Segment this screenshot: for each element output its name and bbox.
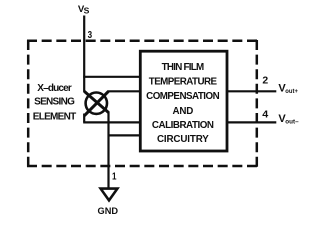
svg-text:1: 1 bbox=[112, 172, 117, 183]
svg-text:CALIBRATION: CALIBRATION bbox=[152, 120, 214, 131]
svg-text:4: 4 bbox=[262, 110, 268, 121]
dashed package outline top edge bbox=[27, 39, 257, 42]
svg-text:SENSING: SENSING bbox=[34, 97, 75, 108]
wire: ground vertical lead (pin 1) bbox=[107, 112, 109, 189]
dashed package outline bottom edge bbox=[27, 165, 257, 168]
wire: Vout- output lead (pin 4) bbox=[226, 121, 276, 123]
wire: ground branch to circuit box bbox=[109, 134, 143, 136]
svg-text:TEMPERATURE: TEMPERATURE bbox=[149, 77, 218, 88]
svg-text:3: 3 bbox=[88, 30, 93, 41]
wire: Vout+ output lead (pin 2) bbox=[226, 90, 276, 92]
circuit box text bbox=[146, 62, 220, 145]
svg-text:X–ducer: X–ducer bbox=[37, 83, 72, 94]
svg-text:AND: AND bbox=[172, 106, 193, 117]
svg-text:THIN FILM: THIN FILM bbox=[162, 62, 205, 73]
svg-text:CIRCUITRY: CIRCUITRY bbox=[157, 134, 209, 145]
dashed package outline right edge bbox=[256, 40, 259, 167]
svg-text:ELEMENT: ELEMENT bbox=[33, 111, 77, 122]
circuit box bbox=[140, 51, 227, 151]
dashed package outline left edge bbox=[27, 40, 30, 167]
X-ducer bridge sensing element symbol bbox=[84, 91, 108, 116]
ground symbol bbox=[101, 189, 118, 201]
wire: bridge top-right tap to circuit box bbox=[108, 90, 143, 92]
svg-text:out+: out+ bbox=[285, 88, 298, 95]
svg-text:out–: out– bbox=[285, 118, 299, 125]
svg-text:2: 2 bbox=[262, 75, 268, 86]
svg-text:COMPENSATION: COMPENSATION bbox=[146, 91, 220, 102]
wire: Vs vertical lead (pin 3) bbox=[83, 16, 85, 93]
wire: Vs branch to circuit box bbox=[83, 76, 142, 78]
svg-text:GND: GND bbox=[98, 206, 119, 217]
wire: bridge bottom-left tap to circuit box bbox=[83, 121, 142, 123]
wire: bridge bottom-left stub down bbox=[83, 114, 85, 123]
X-ducer sensing element label bbox=[33, 83, 77, 122]
svg-text:S: S bbox=[84, 6, 90, 16]
